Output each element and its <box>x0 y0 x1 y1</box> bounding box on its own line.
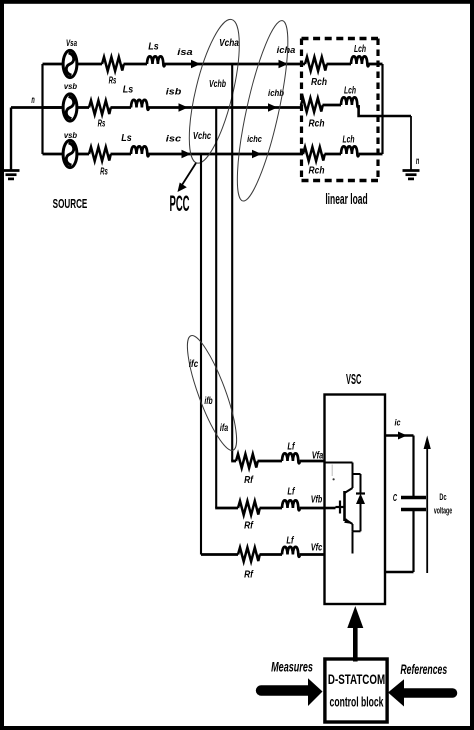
svg-text:ic: ic <box>394 417 401 428</box>
wire: phase a row <box>43 63 64 66</box>
resistor Rs (phase a) <box>102 57 124 71</box>
wire: phase b stub inside VSC <box>325 507 336 510</box>
svg-text:Dc: Dc <box>439 491 447 502</box>
wire: filter branch c <box>201 553 238 556</box>
svg-text:C: C <box>393 491 398 503</box>
D-STATCOM control block box <box>325 659 387 722</box>
AC source vsb <box>63 94 77 121</box>
svg-text:Rch: Rch <box>309 117 325 129</box>
svg-text:Rs: Rs <box>98 118 106 129</box>
current arrow icha <box>279 60 289 68</box>
svg-text:n: n <box>416 155 419 166</box>
wire: vertical feeder phase b <box>215 108 217 509</box>
thick arrow Measures <box>261 685 309 695</box>
svg-text:Rch: Rch <box>309 164 325 176</box>
wire: filter branch b <box>215 507 238 510</box>
svg-text:SOURCE: SOURCE <box>53 198 88 212</box>
AC source vsb (phase c) <box>63 140 77 167</box>
svg-text:icha: icha <box>277 44 297 55</box>
svg-text:Rf: Rf <box>244 520 254 531</box>
svg-text:vsb: vsb <box>64 132 77 141</box>
wire: left source bus vertical <box>41 64 43 154</box>
linear load dashed box <box>302 39 379 181</box>
resistor Rch (phase a) <box>305 57 327 71</box>
stray mark <box>331 465 333 477</box>
current arrow isc <box>182 150 192 158</box>
resistor Rs (phase c) <box>89 147 111 161</box>
svg-text:control block: control block <box>330 695 384 710</box>
svg-text:Vchb: Vchb <box>209 78 226 89</box>
svg-text:Vfb: Vfb <box>311 494 323 505</box>
svg-text:ichc: ichc <box>247 133 263 144</box>
svg-text:D-STATCOM: D-STATCOM <box>328 673 385 688</box>
capacitor C <box>412 436 414 498</box>
inductor Lf (phase b) <box>282 500 300 510</box>
svg-text:linear load: linear load <box>325 190 367 207</box>
svg-text:Ls: Ls <box>148 41 159 52</box>
wire: phase c row <box>43 153 64 156</box>
inductor Lf (phase c) <box>282 547 300 557</box>
svg-text:Rch: Rch <box>311 75 327 87</box>
svg-text:PCC: PCC <box>170 191 190 216</box>
wire: load star bus <box>381 64 383 154</box>
svg-text:Vchc: Vchc <box>193 130 212 141</box>
measurement ellipse (PCC voltages) <box>179 15 250 167</box>
VSC converter box <box>325 395 386 605</box>
svg-text:Vfa: Vfa <box>312 450 324 461</box>
svg-text:isa: isa <box>177 46 193 57</box>
svg-text:Ls: Ls <box>123 84 134 95</box>
svg-text:Lf: Lf <box>287 441 295 452</box>
wire: phase b load tail with step <box>359 105 411 116</box>
inductor Ls (phase b) <box>131 100 149 110</box>
wire: phase b row <box>43 106 64 109</box>
resistor Rf (phase b) <box>238 501 260 515</box>
svg-text:Lch: Lch <box>342 133 354 145</box>
wire: DC top <box>385 434 414 436</box>
svg-text:ifa: ifa <box>220 422 229 433</box>
inductor Lch (phase b) <box>323 104 342 107</box>
svg-text:VSC: VSC <box>346 370 362 388</box>
inductor Ls (phase a) <box>147 56 165 66</box>
svg-text:Vfc: Vfc <box>311 542 323 553</box>
svg-text:Measures: Measures <box>271 660 313 675</box>
svg-text:Vsa: Vsa <box>66 37 78 48</box>
svg-text:Ls: Ls <box>121 132 132 143</box>
svg-text:Lch: Lch <box>344 84 356 96</box>
svg-text:n: n <box>31 94 34 105</box>
svg-text:Lch: Lch <box>354 42 366 54</box>
current arrow ichc <box>252 150 262 158</box>
svg-text:ifb: ifb <box>204 395 212 406</box>
resistor Rch (phase b) <box>301 98 323 112</box>
AC source Vsa <box>63 50 77 77</box>
svg-text:Rf: Rf <box>244 474 254 485</box>
inductor Lf (phase a) <box>282 453 300 463</box>
svg-text:ifc: ifc <box>189 358 199 369</box>
svg-text:Rf: Rf <box>244 569 254 580</box>
wire + ground (right neutral) <box>410 116 412 170</box>
IGBT Q1 with antiparallel diode <box>325 463 361 554</box>
emitter arrow <box>344 518 352 524</box>
resistor Rf (phase c) <box>238 548 260 562</box>
wire: left neutral horizontal <box>11 106 64 109</box>
svg-text:isc: isc <box>166 133 182 144</box>
current arrow ic <box>398 432 407 440</box>
wire: DC bottom <box>385 571 414 573</box>
svg-text:Lf: Lf <box>286 535 294 546</box>
current arrow ichb <box>268 103 278 111</box>
control signal arrow (up into VSC) <box>353 626 358 662</box>
svg-text:References: References <box>400 663 447 678</box>
thick arrow References <box>403 688 453 698</box>
current arrow isa <box>191 60 201 68</box>
svg-text:Rs: Rs <box>100 166 108 177</box>
diode D1 (filled triangle + bar) <box>356 494 365 505</box>
wire: vertical feeder phase c <box>200 154 202 555</box>
resistor Rch (phase c) <box>303 147 325 161</box>
svg-text:isb: isb <box>166 86 182 97</box>
svg-text:vsb: vsb <box>64 83 77 92</box>
inductor Lch (phase c) <box>325 153 342 156</box>
inductor Ls (phase c) <box>131 146 149 156</box>
wire: vertical feeder phase a <box>231 64 233 461</box>
resistor Rs (phase b) <box>89 101 111 115</box>
wire: filter branch a <box>231 460 236 463</box>
resistor Rf (phase a) <box>236 454 258 468</box>
svg-text:Lf: Lf <box>287 486 295 497</box>
measurement ellipse (filter currents) <box>178 331 245 455</box>
svg-text:Vcha: Vcha <box>219 37 239 48</box>
measurement ellipse (load currents) <box>227 17 298 204</box>
svg-text:Rs: Rs <box>109 75 117 86</box>
inductor Lch (phase a) <box>327 63 352 66</box>
current arrow isb <box>179 103 189 111</box>
DC voltage arrow <box>426 443 428 573</box>
svg-text:voltage: voltage <box>434 505 452 516</box>
ground (left) <box>10 108 12 171</box>
